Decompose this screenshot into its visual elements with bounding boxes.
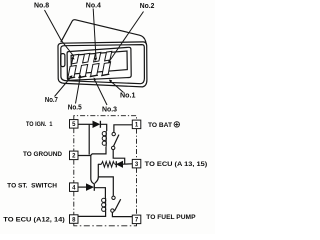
wire coil1 bottom to ground bus	[78, 147, 106, 156]
diode D1	[93, 121, 100, 127]
pin No.2 (top row)	[105, 51, 112, 61]
terminal box 2	[70, 151, 79, 160]
svg-text:No.5: No.5	[68, 104, 82, 111]
dash-dot border right segments	[136, 129, 138, 216]
wire box5 to D1	[78, 123, 93, 125]
wire D1 to coil1 top	[101, 124, 107, 131]
svg-text:No.8: No.8	[34, 3, 49, 10]
dash-dot border bottom	[74, 223, 137, 226]
terminal box 7	[132, 215, 141, 224]
leader No.8	[45, 10, 75, 57]
wire switch2 bottom to box7	[112, 212, 132, 216]
svg-text:TO BAT: TO BAT	[148, 122, 172, 129]
dash-dot border top	[74, 116, 137, 120]
leader No.5	[76, 78, 81, 104]
switch1 bottom contact	[112, 146, 115, 149]
leader No.1	[111, 82, 124, 93]
wire D2 to coil2 top	[95, 188, 106, 198]
svg-text:TO ECU (A 13, 15): TO ECU (A 13, 15)	[145, 161, 208, 168]
relay top face	[61, 20, 146, 45]
wire box5-row junction down to box2 row	[88, 124, 90, 154]
wire node X to resistor	[98, 163, 101, 165]
leader No.4	[93, 9, 96, 59]
pin (top row)	[83, 53, 90, 63]
relay body outer outline (front face)	[58, 42, 147, 87]
pin No.7 (bottom row)	[68, 66, 77, 79]
terminal box 5	[70, 120, 79, 129]
relay inner rim	[61, 45, 145, 84]
svg-text:No.7: No.7	[45, 97, 58, 104]
wire box4 to D2	[78, 186, 86, 188]
switch2 blade	[115, 199, 121, 211]
switch1 blade	[114, 135, 119, 147]
wire ground bus down to D2 bar	[91, 156, 94, 184]
connector cavity opening	[67, 47, 131, 80]
wire switch1 bottom to D3 row junction	[113, 150, 125, 164]
latch detail on left face	[61, 54, 65, 67]
diode D3	[115, 163, 116, 165]
leader No.3	[95, 81, 107, 106]
leader No.2	[110, 12, 144, 62]
svg-text:No.4: No.4	[86, 3, 101, 10]
terminal box 4	[70, 183, 79, 192]
svg-text:No.2: No.2	[140, 3, 155, 10]
switch1 top contact	[112, 132, 115, 135]
resistor R	[101, 162, 114, 168]
pin No.1 (bottom row)	[102, 63, 111, 76]
leader No.7	[55, 78, 71, 97]
pin No.4 (top row)	[94, 52, 101, 62]
wire coil2 bottom to box8	[78, 212, 105, 217]
relay coil 2	[105, 198, 107, 212]
wire node X2 to switch2 top	[98, 177, 113, 196]
wire box1 to switch1 top	[114, 125, 132, 133]
pin No.5 (bottom row)	[79, 65, 88, 78]
battery plus symbol	[174, 122, 179, 127]
switch2 top contact	[112, 196, 115, 199]
switch2 bottom contact	[111, 209, 114, 212]
dash-dot border left segments	[73, 128, 75, 215]
terminal box 3	[132, 159, 141, 168]
cavity back wall	[71, 51, 127, 74]
pin feet bottom row	[67, 74, 110, 79]
pin No.8 (top row)	[72, 54, 79, 64]
svg-text:No.3: No.3	[102, 107, 117, 114]
relay coil 1	[105, 131, 107, 147]
svg-text:TO FUEL PUMP: TO FUEL PUMP	[146, 214, 196, 221]
labels	[34, 3, 155, 114]
diode D2	[86, 184, 93, 191]
svg-text:TO ECU (A12, 14): TO ECU (A12, 14)	[3, 217, 65, 224]
wire node X down to D2 bar	[95, 164, 99, 183]
terminal box 1	[132, 120, 141, 129]
svg-text:TO GROUND: TO GROUND	[23, 151, 62, 158]
svg-text:TO IGN. 1: TO IGN. 1	[26, 121, 53, 128]
svg-text:No.1: No.1	[120, 93, 136, 100]
svg-text:TO ST. SWITCH: TO ST. SWITCH	[7, 182, 57, 189]
terminal box 8	[70, 215, 79, 224]
wire D3 to box3	[123, 163, 133, 165]
pin No.3 (bottom row)	[91, 64, 100, 77]
